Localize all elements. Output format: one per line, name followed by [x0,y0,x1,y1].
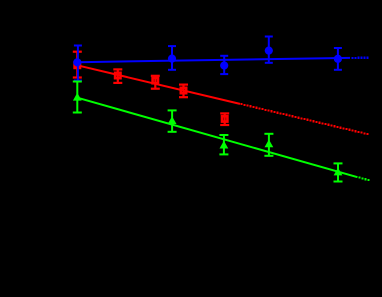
red square marker R4 [181,88,186,93]
blue circle marker B2 [168,55,176,63]
green triangle marker G2 [168,116,177,124]
blue error bar B5 [334,48,342,70]
green fit line (dotted extrapolation) [359,176,370,181]
blue fit line (dotted extrapolation) [352,57,369,60]
green fit line (solid segment) [77,98,357,178]
blue error bar B3 [220,56,228,74]
red error bar R1 [73,52,82,78]
green error bar G2 [168,110,177,131]
red square marker R5 [222,116,227,121]
blue circle marker B5 [334,55,342,63]
red square marker R3 [153,78,158,83]
red error bar R2 [113,69,122,83]
green error bar G5 [334,163,343,181]
red fit line (dotted extrapolation) [241,103,369,135]
red fit line (solid segment) [77,65,240,104]
green triangle marker G4 [265,140,274,148]
red error bar R3 [151,76,160,89]
blue fit line (solid segment) [77,58,350,62]
red error bar R5 [220,113,229,125]
green error bar G4 [264,134,273,156]
green error bar G1 [73,82,82,113]
blue error bar B2 [168,46,176,70]
green triangle marker G5 [334,168,343,176]
red error bar R4 [179,85,188,98]
blue error bar B4 [265,37,273,63]
red square marker R2 [115,73,120,78]
blue error bar B1 [74,46,82,81]
blue circle marker B4 [265,47,273,55]
blue circle marker B3 [220,61,228,69]
blue circle marker B1 [73,58,81,66]
green triangle marker G3 [220,141,229,149]
red square marker R1 [75,63,80,68]
green triangle marker G1 [73,93,82,101]
green error bar G3 [219,135,228,154]
